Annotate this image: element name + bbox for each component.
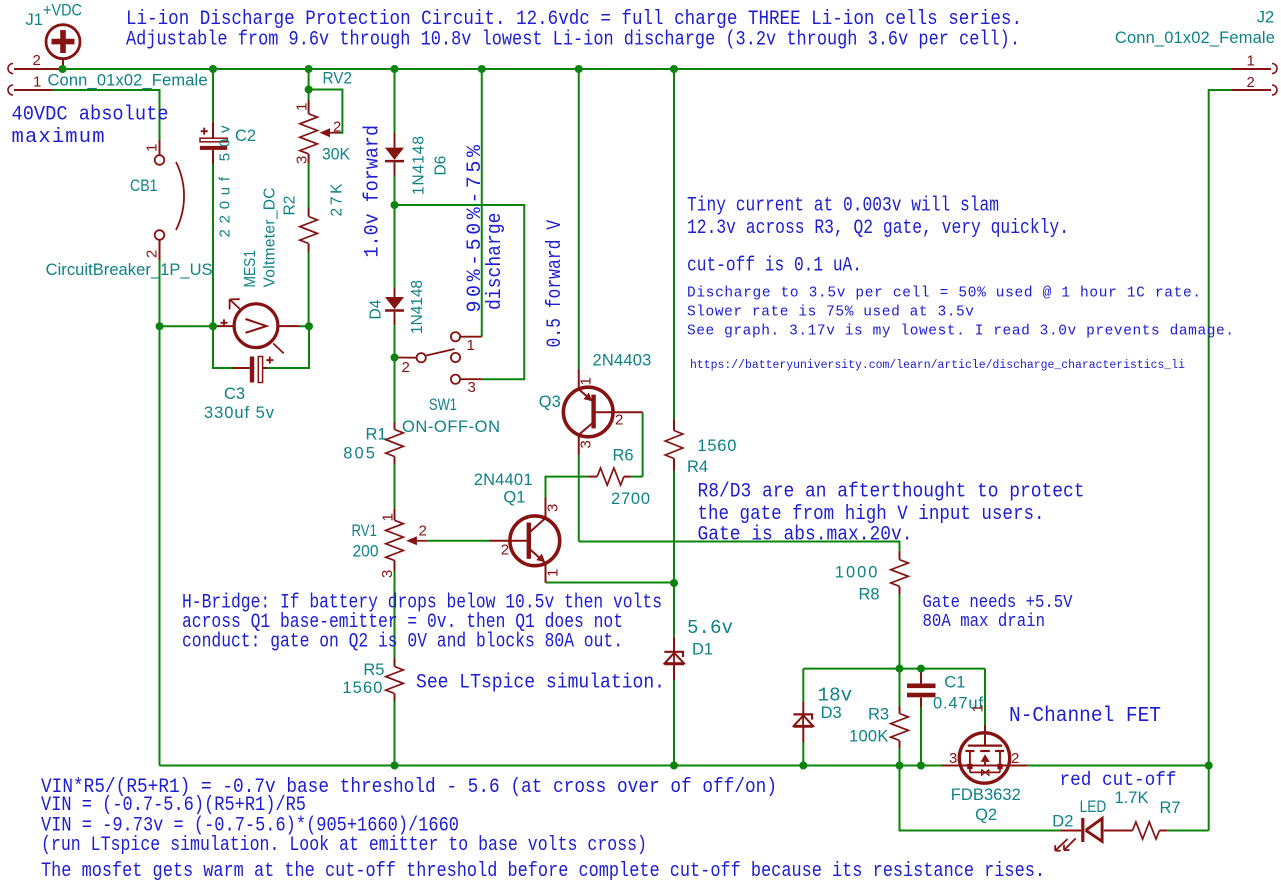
svg-text:N-Channel FET: N-Channel FET (1009, 705, 1161, 728)
svg-text:2: 2 (1011, 750, 1019, 767)
svg-text:1000: 1000 (835, 564, 878, 582)
svg-text:D1: D1 (692, 641, 713, 659)
svg-text:3: 3 (468, 379, 476, 396)
svg-text:R5: R5 (363, 661, 384, 679)
svg-text:J2: J2 (1257, 9, 1274, 27)
svg-text:R7: R7 (1160, 799, 1181, 817)
svg-text:805: 805 (343, 445, 375, 463)
svg-text:D2: D2 (1052, 813, 1073, 831)
svg-text:1560: 1560 (697, 437, 736, 455)
svg-text:1: 1 (578, 377, 595, 385)
svg-text:CircuitBreaker_1P_US: CircuitBreaker_1P_US (46, 261, 213, 279)
svg-text:SW1: SW1 (429, 396, 457, 414)
svg-text:LED: LED (1080, 798, 1107, 816)
svg-text:cut-off is 0.1 uA.: cut-off is 0.1 uA. (687, 255, 862, 278)
svg-text:30K: 30K (322, 146, 350, 164)
svg-text:C3: C3 (224, 385, 245, 403)
svg-text:2700: 2700 (611, 490, 650, 508)
svg-text:Q1: Q1 (503, 489, 525, 507)
svg-text:FDB3632: FDB3632 (951, 786, 1021, 804)
svg-text:red cut-off: red cut-off (1060, 769, 1177, 791)
svg-text:1: 1 (380, 513, 397, 521)
svg-text:conduct: gate on Q2 is 0V and: conduct: gate on Q2 is 0V and blocks 80A… (182, 631, 623, 654)
svg-text:3: 3 (545, 504, 562, 512)
svg-text:The mosfet gets warm at the cu: The mosfet gets warm at the cut-off thre… (41, 860, 1045, 883)
svg-text:2: 2 (333, 119, 341, 136)
svg-text:R8: R8 (859, 586, 880, 604)
svg-text:Slower rate is 75% used at 3.5: Slower rate is 75% used at 3.5v (687, 304, 974, 320)
svg-text:1: 1 (144, 144, 161, 152)
svg-text:1: 1 (1247, 53, 1255, 70)
svg-text:3: 3 (379, 570, 396, 578)
svg-text:2: 2 (501, 542, 509, 559)
svg-text:RV2: RV2 (323, 70, 353, 88)
svg-text:2: 2 (615, 411, 623, 428)
svg-text:1N4148: 1N4148 (411, 136, 428, 195)
svg-text:R6: R6 (613, 447, 634, 465)
svg-text:+VDC: +VDC (43, 2, 82, 20)
svg-text:Voltmeter_DC: Voltmeter_DC (262, 188, 279, 288)
svg-text:Conn_01x02_Female: Conn_01x02_Female (48, 71, 208, 89)
svg-text:1N4148: 1N4148 (409, 280, 426, 334)
svg-text:R4: R4 (687, 458, 708, 476)
svg-text:Q2: Q2 (975, 806, 997, 824)
svg-text:1: 1 (970, 704, 987, 712)
svg-text:C1: C1 (944, 674, 965, 692)
svg-text:2: 2 (33, 52, 41, 69)
svg-text:maximum: maximum (12, 126, 105, 149)
svg-text:Discharge to 3.5v per cell = 5: Discharge to 3.5v per cell = 50% used @ … (687, 286, 1201, 302)
svg-text:D4: D4 (368, 299, 385, 319)
svg-text:3: 3 (294, 156, 311, 164)
svg-text:12.3v across R3, Q2 gate, very: 12.3v across R3, Q2 gate, very quickly. (687, 217, 1069, 240)
svg-text:(run LTspice simulation. Look: (run LTspice simulation. Look at emitter… (41, 834, 647, 857)
svg-text:1: 1 (33, 74, 41, 91)
svg-text:Gate needs +5.5V: Gate needs +5.5V (923, 592, 1073, 613)
svg-text:https://batteryuniversity.com/: https://batteryuniversity.com/learn/arti… (690, 359, 1185, 372)
svg-text:2: 2 (419, 523, 427, 540)
svg-text:1.0v forward: 1.0v forward (362, 125, 385, 258)
svg-text:discharge: discharge (484, 213, 507, 311)
svg-text:2N4401: 2N4401 (474, 471, 533, 489)
svg-text:330uf 5v: 330uf 5v (204, 404, 275, 422)
svg-text:220uf 50v: 220uf 50v (217, 125, 234, 238)
svg-text:Adjustable from 9.6v through 1: Adjustable from 9.6v through 10.8v lowes… (126, 29, 1020, 52)
svg-text:1: 1 (545, 569, 562, 577)
svg-text:0.5 forward V: 0.5 forward V (544, 220, 567, 348)
svg-text:MES1: MES1 (242, 250, 259, 288)
svg-text:Tiny current at 0.003v will sl: Tiny current at 0.003v will slam (687, 195, 999, 218)
svg-text:1560: 1560 (342, 679, 382, 697)
svg-text:RV1: RV1 (352, 522, 377, 540)
svg-text:CB1: CB1 (130, 177, 158, 195)
svg-text:R2: R2 (282, 196, 299, 216)
svg-text:R3: R3 (868, 706, 889, 724)
svg-text:3: 3 (578, 440, 595, 448)
svg-text:Conn_01x02_Female: Conn_01x02_Female (1115, 29, 1275, 47)
svg-text:2: 2 (1247, 74, 1255, 91)
svg-text:See graph. 3.17v is my lowest.: See graph. 3.17v is my lowest. I read 3.… (687, 323, 1234, 339)
svg-text:D3: D3 (821, 704, 842, 722)
svg-text:2: 2 (144, 250, 161, 258)
svg-text:Gate is abs.max.20v.: Gate is abs.max.20v. (698, 524, 913, 547)
svg-text:5.6v: 5.6v (687, 617, 733, 639)
svg-text:80A max drain: 80A max drain (923, 611, 1046, 632)
svg-text:200: 200 (353, 543, 379, 561)
svg-text:C2: C2 (235, 127, 256, 145)
svg-text:27K: 27K (329, 183, 346, 217)
svg-text:Q3: Q3 (539, 393, 561, 411)
svg-text:1: 1 (467, 337, 475, 354)
svg-text:J1: J1 (26, 11, 43, 29)
svg-text:R1: R1 (366, 426, 387, 444)
svg-text:40VDC absolute: 40VDC absolute (12, 104, 169, 127)
svg-text:See LTspice simulation.: See LTspice simulation. (416, 672, 665, 695)
svg-text:2N4403: 2N4403 (593, 352, 652, 370)
svg-text:1: 1 (294, 103, 311, 111)
svg-text:2: 2 (402, 359, 410, 376)
svg-text:R8/D3 are an afterthought to p: R8/D3 are an afterthought to protect (698, 481, 1085, 504)
svg-text:ON-OFF-ON: ON-OFF-ON (402, 418, 500, 436)
svg-text:D6: D6 (433, 156, 450, 176)
svg-text:100K: 100K (849, 728, 888, 746)
svg-text:1.7K: 1.7K (1115, 789, 1149, 807)
svg-text:3: 3 (949, 750, 957, 767)
